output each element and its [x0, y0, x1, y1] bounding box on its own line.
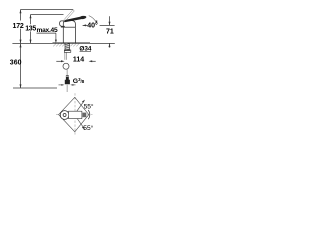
body joint line: [63, 26, 75, 28]
centerline below shank: [65, 52, 67, 92]
wire: 40 deg leader right / 71 upper ref: [100, 24, 115, 26]
deck surface line: [53, 42, 91, 44]
wire: 71 bottom arrow stem: [109, 43, 111, 47]
wire: deck extension line right: [90, 42, 115, 44]
lever raised phantom: [64, 10, 74, 21]
arrow 114 left (points right at hose): [61, 60, 65, 62]
lever knob: [79, 15, 86, 19]
svg-text:135: 135: [25, 25, 36, 32]
arrow 360 bottom: [20, 84, 22, 88]
diamond swing envelope: [59, 97, 89, 132]
wire: dim line 360 vertical: [20, 44, 22, 88]
spout nose: [60, 21, 65, 26]
wire: dim line 172 vertical: [20, 10, 22, 21]
arrowheads dimension: [20, 10, 111, 88]
55deg ray upper: [77, 100, 85, 111]
max45 leader arrow: [55, 40, 57, 43]
arrow 172 top: [20, 10, 22, 14]
wire: 71 top arrow stem: [109, 16, 111, 25]
arrow 40deg leader (points left at knob): [83, 24, 87, 26]
svg-text:max.45: max.45: [37, 27, 58, 34]
wire: dim line 135 vertical: [30, 15, 32, 25]
svg-text:55°: 55°: [83, 124, 93, 132]
55deg ray lower: [77, 118, 85, 129]
max45 underline: [37, 32, 57, 34]
wire: extension line top 172: [21, 9, 74, 11]
head block: [63, 21, 75, 28]
svg-text:40°: 40°: [87, 21, 98, 29]
bottom view: dashed centerlines: [56, 93, 93, 136]
wire: 40 deg leader left: [83, 24, 88, 26]
inner circle: [63, 114, 66, 117]
G3/8 width dim arrows: [59, 84, 76, 86]
svg-text:Ø34: Ø34: [79, 45, 92, 52]
wire: deck extension line left: [12, 42, 52, 44]
arrow 135 top: [30, 15, 32, 19]
arrow 172 bottom: [20, 40, 22, 44]
wire: bottom reference line 360: [13, 87, 57, 89]
hose ball circle: [63, 63, 69, 69]
wire: 114 dim line right: [92, 60, 96, 62]
angle arc bracket right: [88, 110, 90, 119]
handle bar top view: [69, 111, 82, 118]
swing arc 40deg: [89, 16, 97, 23]
body cylinder: [63, 27, 75, 43]
arrow 71 top (points down): [109, 22, 111, 26]
faucet body side view: [60, 21, 76, 43]
arrow 71 bottom (points up): [109, 44, 111, 48]
lever handle solid: [64, 17, 81, 23]
svg-text:360: 360: [10, 59, 22, 66]
arrow 135 bottom: [30, 40, 32, 44]
svg-text:172: 172: [13, 23, 24, 30]
svg-text:55°: 55°: [84, 102, 94, 110]
nut: [64, 50, 71, 52]
arrow 114 right (points left): [89, 60, 93, 62]
wire: 114 dim line left: [56, 60, 61, 62]
deck hatching: [53, 44, 79, 47]
max45 leader stem: [55, 33, 57, 40]
bottom view faucet: outer circle: [60, 111, 69, 120]
arrow 360 top: [20, 44, 22, 48]
svg-text:71: 71: [106, 28, 114, 35]
aerator: [61, 26, 65, 27]
arrow swing arc bottom: [96, 21, 98, 24]
svg-text:114: 114: [73, 56, 84, 63]
underline of diameter 34 label: [80, 50, 91, 52]
shank below deck: [64, 43, 71, 52]
texts: [10, 21, 114, 131]
G3/8 connector: [65, 75, 70, 84]
handle end tab: [82, 113, 86, 118]
wire: extension line top 135: [31, 14, 64, 16]
